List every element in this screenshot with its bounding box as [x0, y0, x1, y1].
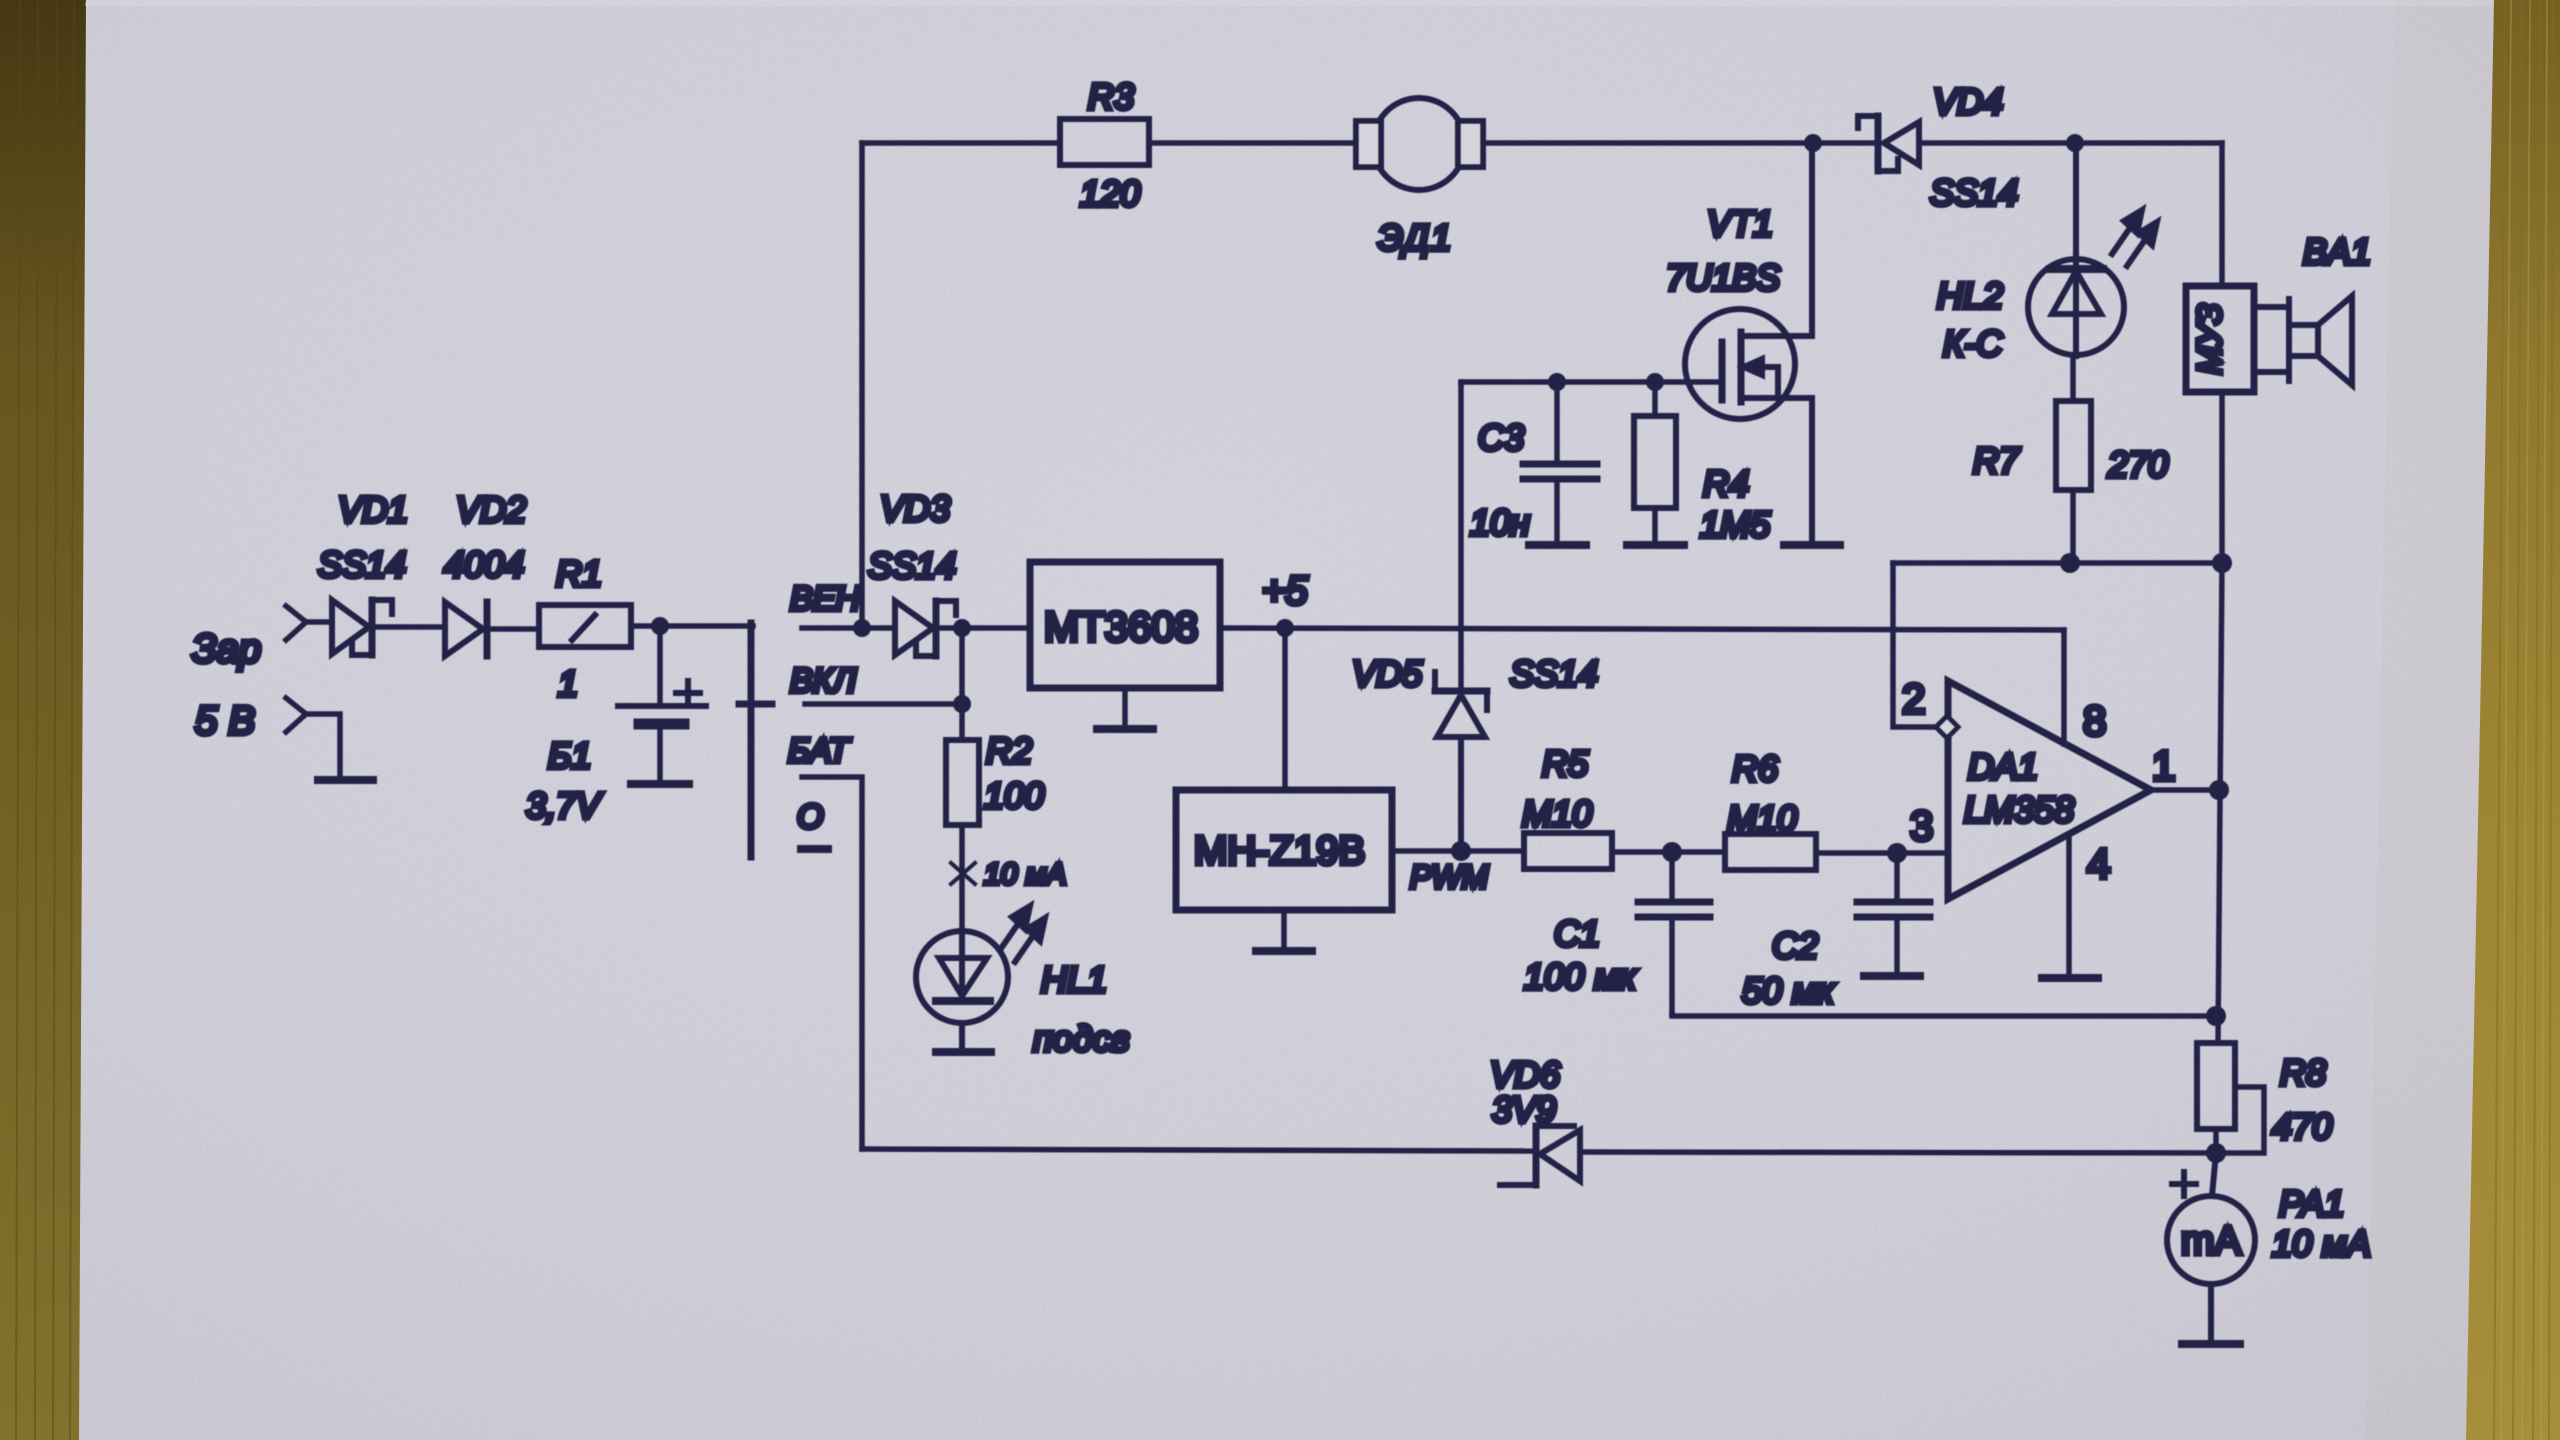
svg-text:100: 100 [984, 775, 1044, 816]
junction node at VT1 drain top [1804, 134, 1822, 152]
ground T-bar of C2 [1864, 972, 1920, 980]
svg-text:R4: R4 [1703, 463, 1749, 504]
svg-text:mA: mA [2181, 1219, 2241, 1263]
light arrows of HL1 [1000, 906, 1045, 962]
svg-text:VT1: VT1 [1707, 203, 1773, 244]
junction node gate rail at R4 [1646, 373, 1664, 391]
LED HL2 [2028, 143, 2124, 356]
svg-text:1: 1 [558, 663, 578, 704]
svg-text:Зар: Зар [192, 627, 261, 671]
svg-text:SS14: SS14 [1510, 653, 1598, 694]
speaker BA1 [2254, 296, 2352, 385]
wire: ВЕН contact [802, 625, 895, 631]
capacitor C2 [1857, 853, 1930, 974]
wire: top motor rail from corner to R3 [862, 140, 1060, 146]
ground T-bar of C3 [1529, 541, 1586, 549]
ground T-bar of R4 [1627, 541, 1684, 549]
wire: op-amp pin 4 to ground [2066, 835, 2072, 977]
wire: R5 to R6 [1612, 849, 1725, 855]
diode VD1 SS14 [332, 600, 392, 655]
LED HL1 [916, 931, 1008, 1050]
resistor R8 with tap [2197, 1043, 2264, 1153]
wire: bottom rail from БАТ corner to VD6 [862, 1149, 1534, 1151]
capacitor C1 [1638, 852, 1710, 1014]
svg-text:ЭД1: ЭД1 [1378, 217, 1453, 258]
wood table background right strip [2430, 0, 2560, 1440]
ground T-bar of HL1 [936, 1048, 991, 1056]
svg-text:MH-Z19B: MH-Z19B [1194, 829, 1365, 873]
svg-text:5 В: 5 В [195, 699, 255, 743]
svg-text:SS14: SS14 [868, 545, 956, 586]
resistor R5 [1524, 833, 1612, 869]
svg-text:подсв: подсв [1033, 1018, 1130, 1059]
diode VD4 SS14 (pointing left) [1858, 116, 1919, 171]
ground T-bar of op-amp pin 4 [2042, 974, 2098, 982]
junction node ВЕН [853, 619, 871, 637]
wire: corner down to МУЗ box [2219, 143, 2225, 286]
svg-text:120: 120 [1080, 173, 1140, 214]
svg-text:PA1: PA1 [2279, 1183, 2344, 1224]
svg-text:PWM: PWM [1410, 859, 1489, 895]
milliammeter PA1 [2167, 1153, 2255, 1342]
wire: C1 bottom feedback to output net [1672, 1014, 2216, 1016]
junction node R7 bottom [2060, 553, 2080, 573]
resistor R7 [2056, 356, 2091, 563]
junction node C2 [1887, 843, 1907, 863]
svg-text:1: 1 [2152, 742, 2175, 789]
svg-text:R3: R3 [1088, 76, 1134, 117]
svg-text:470: 470 [2272, 1106, 2332, 1147]
wire: БАТ contact L down to bottom rail [802, 777, 862, 1149]
wire: VD1 to VD2 [374, 624, 445, 630]
op-amp DA1 LM358 [1948, 681, 2151, 899]
wire: +5 corner down to op-amp pin 8 [2061, 630, 2067, 744]
wire: ВКЛ contact to R2 node [805, 701, 962, 707]
svg-text:7U1BS: 7U1BS [1666, 257, 1780, 298]
battery Б1 [618, 626, 706, 784]
resistor R3 [1060, 119, 1149, 165]
junction node above HL2 [2066, 134, 2084, 152]
svg-text:SS14: SS14 [1930, 172, 2018, 213]
wire: feedback rail y563 from pin2 corner to МУЗ [1893, 560, 2222, 566]
wire: VD4 to HL2 node to corner [1919, 140, 2222, 146]
wire: op-amp output pin 1 [2151, 787, 2218, 793]
junction node C1 feedback [2206, 1006, 2226, 1026]
svg-text:R8: R8 [2280, 1052, 2326, 1093]
svg-text:C3: C3 [1478, 417, 1524, 458]
diode VD2 4004 [445, 602, 487, 656]
svg-text:К-С: К-С [1943, 323, 2003, 364]
svg-text:БАТ: БАТ [788, 732, 851, 770]
svg-text:Б1: Б1 [548, 735, 591, 776]
module MT3608 [1030, 562, 1220, 688]
svg-text:SS14: SS14 [318, 544, 406, 585]
svg-text:VD2: VD2 [456, 489, 526, 530]
svg-text:10 мА: 10 мА [2272, 1223, 2371, 1264]
junction node gate rail at C3 [1548, 373, 1566, 391]
diode VD3 SS14 [895, 601, 956, 656]
label + of PA1 [2172, 1172, 2196, 1196]
wire: node down to R2 [959, 628, 965, 740]
svg-text:VD4: VD4 [1933, 81, 2003, 122]
wire: VD6 to R8 bottom node [1580, 1152, 2216, 1153]
wire: output net vertical [2218, 563, 2222, 1043]
pin 2 diamond of op-amp [1936, 716, 1958, 738]
svg-text:4004: 4004 [444, 544, 524, 585]
svg-text:10н: 10н [1470, 502, 1530, 543]
connector pin Зар top chevron [286, 606, 332, 640]
wire: R3 to motor [1149, 140, 1356, 146]
svg-text:VD1: VD1 [338, 489, 408, 530]
svg-text:VD5: VD5 [1352, 653, 1423, 694]
svg-text:DA1: DA1 [1968, 746, 2038, 787]
svg-text:3V9: 3V9 [1492, 1089, 1556, 1130]
wire: VD2 to R1 [489, 626, 539, 632]
wire: MH-Z19B ground stub [1281, 910, 1287, 950]
junction node +5 [1276, 619, 1294, 637]
ground T-bar of MT3608 [1097, 725, 1153, 733]
light arrows of HL2 [2112, 210, 2157, 266]
capacitor C3 [1523, 382, 1597, 545]
wire: МУЗ bottom to rail [2219, 392, 2225, 563]
svg-text:270: 270 [2107, 444, 2168, 485]
junction node R8 bottom [2206, 1143, 2226, 1163]
ground T-bar of charger input [318, 776, 373, 784]
svg-text:ВЕН: ВЕН [790, 580, 860, 618]
wire: gate rail from VD5 top to gate [1461, 382, 1719, 691]
svg-text:BA1: BA1 [2303, 231, 2371, 272]
svg-text:M10: M10 [1727, 798, 1797, 839]
module MH-Z19B [1176, 790, 1392, 910]
svg-text:C2: C2 [1772, 925, 1818, 966]
svg-text:R1: R1 [556, 553, 602, 594]
junction node after VD3 [953, 619, 971, 637]
resistor R4 [1634, 382, 1676, 545]
current mark × 10 мА at R2 [951, 863, 975, 884]
svg-text:ВКЛ: ВКЛ [790, 662, 857, 700]
junction node PWM-VD5 [1451, 841, 1471, 861]
ground T-bar of MH-Z19B [1256, 947, 1312, 955]
wire: VD3 to MT3608 [938, 625, 1030, 631]
svg-text:HL2: HL2 [1937, 275, 2003, 316]
svg-text:3,7V: 3,7V [526, 785, 603, 826]
wire: inverting input pin 2 feedback [1893, 563, 1936, 727]
label minus of О [801, 845, 828, 853]
svg-text:+5: +5 [1262, 569, 1308, 613]
svg-text:3: 3 [1910, 802, 1933, 849]
junction node battery [651, 617, 669, 635]
svg-text:8: 8 [2083, 697, 2106, 744]
transistor VT1 MOSFET [1685, 143, 1812, 545]
switch bar of connector [748, 623, 755, 857]
wire: R6 to op-amp pin 3 [1816, 850, 1948, 856]
junction node C1 [1662, 842, 1682, 862]
ground T-bar of PA1 [2182, 1340, 2240, 1348]
svg-text:4: 4 [2087, 840, 2110, 887]
wire: MT3608 output +5 node [1220, 628, 2064, 630]
svg-text:HL1: HL1 [1041, 959, 1107, 1000]
svg-text:1M5: 1M5 [1700, 504, 1771, 545]
wire: vertical from top rail down to BEH junction [859, 143, 865, 628]
svg-text:LM358: LM358 [1964, 789, 2074, 830]
svg-text:C1: C1 [1554, 913, 1600, 954]
sound module МУЗ box [2186, 286, 2254, 392]
wire: +5 down to MH-Z19B [1282, 628, 1288, 790]
resistor R6 [1725, 834, 1816, 870]
svg-text:R2: R2 [986, 730, 1032, 771]
switch contact stub at ВКЛ level [739, 701, 772, 708]
resistor R2 [946, 740, 979, 931]
junction node op-amp output [2209, 780, 2229, 800]
svg-text:10 мА: 10 мА [984, 858, 1066, 891]
svg-text:50 мк: 50 мк [1742, 970, 1836, 1011]
svg-text:100 мк: 100 мк [1524, 956, 1638, 997]
wire: MT3608 ground stub [1122, 688, 1128, 728]
ground T-bar of VT1 source [1784, 541, 1840, 549]
svg-text:2: 2 [1902, 675, 1925, 722]
svg-text:VD3: VD3 [880, 488, 950, 529]
svg-text:M10: M10 [1522, 793, 1592, 834]
svg-text:R5: R5 [1542, 743, 1589, 784]
diode VD5 SS14 zener-protect (pointing up) [1435, 672, 1487, 851]
junction node МУЗ bottom [2212, 553, 2232, 573]
wire: motor to VD4 with node to VT1 drain [1483, 140, 1877, 146]
label + of battery [676, 681, 700, 705]
wire: PWM out to R5 [1392, 848, 1524, 854]
wire: R1 to switch with battery node [631, 623, 753, 629]
connector pin bottom chevron of Зар [286, 698, 340, 779]
diode VD6 3V9 zener (pointing left) [1500, 1126, 1580, 1185]
svg-text:МТ3608: МТ3608 [1044, 603, 1198, 650]
svg-text:МУЗ: МУЗ [2191, 303, 2229, 374]
svg-text:R7: R7 [1973, 440, 2021, 481]
motor ЭД1 [1356, 98, 1483, 190]
svg-text:О: О [797, 798, 823, 836]
resistor R1 fusible [539, 605, 631, 647]
svg-text:R6: R6 [1732, 748, 1779, 789]
junction node ВКЛ-R2 [953, 695, 971, 713]
wood table background left strip [0, 0, 120, 1440]
